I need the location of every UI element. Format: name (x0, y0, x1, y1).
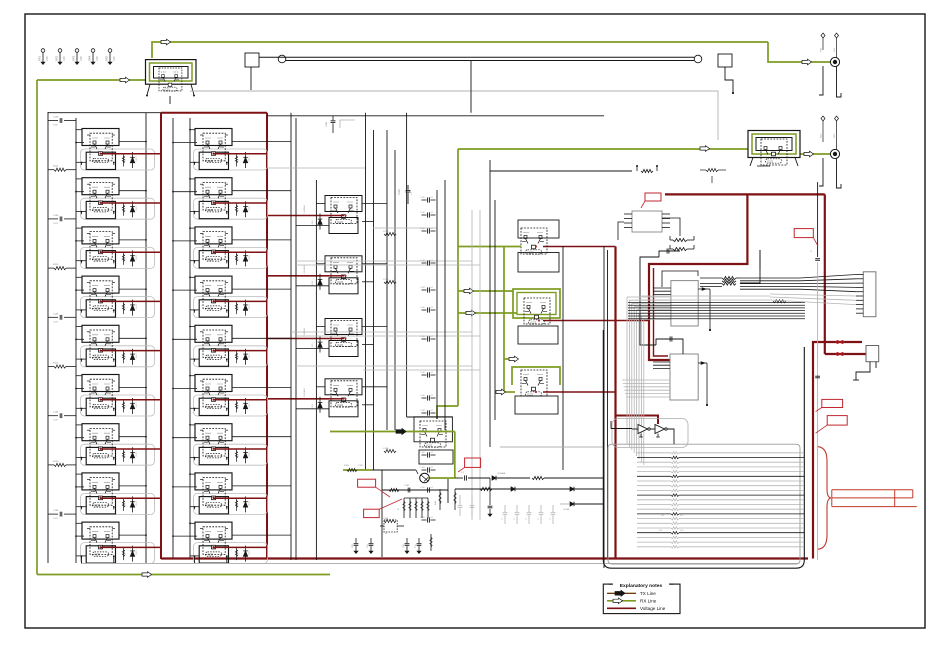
maroon cellC4 wire (543, 391, 616, 393)
black link U1-U2 left (640, 257, 659, 345)
optocoupler cell B7 (194, 424, 250, 465)
J1 tail wires (819, 66, 823, 95)
cell A5 junction dots (75, 338, 77, 340)
svg-text:NF1: NF1 (38, 56, 42, 61)
svg-text:Voltage Line: Voltage Line (640, 606, 666, 611)
RX arrow (120, 77, 130, 83)
cell A3 junction dots (75, 240, 77, 242)
cap chain x817 (817, 182, 819, 257)
gray crossing wire 1 (296, 260, 472, 262)
J2 tail wires (819, 158, 823, 186)
cell B4 left wires (190, 276, 195, 278)
green loop around E1 (330, 431, 455, 433)
gray crossing wire 3 (291, 331, 472, 333)
cell B9 voltage wire (213, 546, 267, 548)
annotation box NOTE6 (358, 479, 376, 487)
svg-text:C120: C120 (398, 189, 401, 195)
optocoupler cell A1 gray enclosure (81, 149, 155, 170)
IC U1 (671, 281, 698, 326)
optocoupler cell B1 gray enclosure (194, 149, 268, 170)
svg-text:L150: L150 (312, 343, 314, 349)
cell B2 left wires (190, 178, 195, 180)
cell C1 outer rects (325, 196, 362, 212)
svg-text:TX Line: TX Line (640, 591, 656, 596)
optocoupler cell B9 (194, 522, 250, 563)
input network row A1 (48, 120, 58, 122)
green stub D1 (458, 246, 521, 248)
gray cap row left (459, 495, 461, 505)
fan resistors (722, 276, 736, 279)
cell B5 junction dots (172, 338, 174, 340)
bundle resistor (773, 300, 786, 303)
cell A2 right wire (119, 190, 146, 192)
gray bundle lower (622, 379, 670, 381)
coupling capacitor (422, 214, 427, 216)
RX arrow D2b (466, 310, 476, 316)
cell D3 outer (515, 396, 558, 414)
maroon to DC block (825, 353, 866, 355)
optocoupler cell A4 gray enclosure (81, 297, 155, 318)
optocoupler cell B9 gray enclosure (194, 543, 268, 564)
cell C2 outer rects (325, 256, 362, 272)
U2 left pins (653, 361, 670, 363)
coupling capacitor (422, 338, 427, 340)
RX arrow D3 (509, 356, 519, 362)
cell A7 left wires (76, 424, 82, 426)
optocoupler cell A2 (81, 178, 137, 219)
svg-text:C148: C148 (53, 117, 59, 119)
cell C4 diode (319, 397, 321, 403)
cell C4 maroon entry (329, 398, 344, 400)
input network row A3 (48, 218, 58, 220)
upper gray link (340, 120, 355, 128)
maroon cellB4 long wire (543, 320, 649, 322)
line cell D2 (524, 298, 550, 324)
black vertical x382 (381, 470, 383, 557)
cell A4 junction dots (75, 289, 77, 291)
resistor R31 (480, 487, 492, 490)
cell C4 outer rects (325, 379, 362, 395)
cell A2 junction dots (75, 191, 77, 193)
cell A8 right wire (119, 485, 146, 487)
coupling capacitor (422, 412, 427, 414)
cell B6 junction dots (172, 388, 174, 390)
cell B8 right wire (232, 485, 291, 487)
cell C1 maroon entry (329, 215, 344, 217)
cell A7 voltage wire (100, 448, 161, 450)
green wire down to J1 (768, 42, 830, 62)
optocoupler cell A9 (81, 522, 137, 563)
optocoupler cell B7 gray enclosure (194, 444, 268, 465)
input network row A8 (48, 464, 54, 466)
line cell D1 (521, 228, 547, 254)
annotation box NOTE4 (827, 416, 847, 426)
svg-text:1SB: 1SB (46, 56, 49, 61)
bus line (436, 190, 438, 419)
cell B9 right wire (232, 534, 291, 536)
svg-text:150P: 150P (53, 321, 59, 323)
svg-text:NF5: NF5 (105, 56, 109, 61)
svg-text:C148: C148 (53, 412, 59, 414)
svg-text:L150: L150 (312, 280, 314, 286)
green box around cell D2 (513, 289, 560, 318)
maroon box top (161, 112, 267, 114)
optocoupler cell A7 gray enclosure (81, 444, 155, 465)
CN2 pin 3 (856, 282, 863, 284)
cell A6 junction dots (75, 388, 77, 390)
pin diamond group2-1 (821, 116, 825, 121)
small IC E2 dashed (384, 520, 397, 532)
optocoupler cell A3 gray enclosure (81, 247, 155, 268)
cell A3 right wire (119, 239, 146, 241)
DC-DC block (866, 346, 879, 362)
svg-text:C148: C148 (383, 448, 389, 450)
wire to transistor (372, 469, 416, 471)
maroon jog down (649, 194, 747, 360)
wire y490 (382, 489, 448, 491)
svg-text:1SB: 1SB (113, 56, 116, 61)
lower ladder wire (455, 488, 604, 490)
green long line to transformer T2 (458, 148, 748, 150)
gray vertical x817 (817, 262, 819, 560)
component cluster resistors (403, 498, 405, 518)
cell C4 left wires (316, 386, 325, 388)
cell B3 right wire (232, 239, 291, 241)
red polarity beads (836, 341, 839, 344)
cell A4 right wire (119, 288, 146, 290)
optocoupler cell A5 gray enclosure (81, 346, 155, 367)
green top loop from T1 (152, 42, 768, 58)
optocoupler cell B4 gray enclosure (194, 297, 268, 318)
left top bus (48, 112, 161, 114)
cell C2 red dot (344, 275, 346, 277)
cell B9 ground drops (194, 556, 196, 564)
inner rounded box (608, 444, 800, 564)
connector J1 (830, 57, 839, 66)
svg-text:L1B0A6B: L1B0A6B (303, 265, 306, 274)
svg-text:C180: C180 (326, 121, 328, 127)
cell A9 junction dots (75, 535, 77, 537)
optocoupler cell C3 (331, 321, 357, 347)
gray cap row mid (504, 505, 506, 512)
CN2 pin 2 (856, 278, 863, 280)
cell E1 lower rect (419, 450, 453, 464)
svg-text:150P: 150P (53, 518, 59, 520)
legend title dashes (609, 583, 613, 585)
optocoupler cell B2 (194, 178, 250, 219)
opamp feed wires (611, 428, 632, 430)
green out of T2 to J2 (800, 153, 830, 155)
cell C1 diode (319, 214, 321, 220)
link to IC area (490, 170, 632, 172)
U1 left pins (653, 287, 671, 289)
transformer T1 component (159, 68, 182, 91)
cell C3 right wires (362, 326, 387, 328)
optocoupler cell B5 gray enclosure (194, 346, 268, 367)
cell B2 right wire (232, 190, 291, 192)
transistor Q1 (420, 473, 430, 483)
line circle (278, 55, 286, 63)
bus line (315, 180, 317, 560)
bottom cap row (355, 538, 357, 543)
pin diamond group1-1 (821, 33, 825, 38)
cell B8 left wires (190, 473, 195, 475)
cell B8 junction dots (172, 486, 174, 488)
gray crossing wire 4 (296, 335, 480, 337)
svg-text:NF3: NF3 (72, 56, 76, 61)
diode D10 (492, 476, 496, 480)
gray bus (471, 210, 473, 520)
input network row A9 (48, 513, 58, 515)
optocoupler cell B1 (194, 129, 250, 170)
RX arrow D3b (496, 389, 506, 395)
green jog to modem cell (437, 406, 458, 419)
maroon to col3 row3 (267, 338, 329, 340)
U1 right pins (698, 288, 710, 290)
optocoupler cell A6 (81, 375, 137, 416)
maroon right vertical (824, 194, 826, 354)
transformer T2 nested shield (748, 131, 800, 158)
cell A8 left wires (76, 473, 82, 475)
line cell D1 outer (518, 220, 559, 238)
svg-text:L150: L150 (312, 403, 314, 409)
diode D12 (570, 487, 574, 491)
cell B7 right wire (232, 436, 291, 438)
legend box (603, 584, 680, 614)
svg-text:C148: C148 (53, 215, 59, 217)
annotation box NOTE2 (794, 229, 813, 238)
cell B1 right wire (232, 141, 291, 143)
legend RX line (607, 600, 636, 602)
maroon to col3 row1 (267, 215, 329, 217)
input pin P3 (75, 49, 79, 53)
coupling capacitor (422, 230, 427, 232)
cell A6 left wires (76, 375, 82, 377)
coupling capacitor (422, 199, 427, 201)
bus line (406, 113, 408, 417)
optocoupler cell B4 (194, 276, 250, 317)
green box cell D3 top (512, 367, 560, 385)
maroon mid-right path (665, 193, 825, 195)
cell A1 voltage wire (100, 153, 161, 155)
cell B9 left wires (190, 522, 195, 524)
cell A8 junction dots (75, 486, 77, 488)
optocoupler cell A8 (81, 473, 137, 514)
cell B5 voltage wire (213, 350, 267, 352)
cell A9 right wire (119, 534, 146, 536)
T1 ground stub (169, 96, 171, 104)
cell A3 voltage wire (100, 251, 161, 253)
gray crossing wire 8 (373, 227, 437, 229)
maroon to col3 row2 (267, 275, 329, 277)
bus line right (759, 250, 761, 270)
cross horizontal (407, 416, 452, 418)
CN2 pin 7 (856, 299, 863, 301)
cell A7 right wire (119, 436, 146, 438)
green stub D3 upper (504, 358, 517, 360)
RX arrow on T2 line (700, 146, 710, 152)
capacitor C120 (407, 185, 409, 190)
cell B6 right wire (232, 387, 291, 389)
maroon IC inner line (654, 268, 669, 356)
cluster top wire (404, 497, 428, 499)
pin diamond group2-2 (835, 116, 839, 121)
svg-text:L1B0A6B: L1B0A6B (303, 388, 306, 397)
cell B3 junction dots (172, 240, 174, 242)
red curly brace (818, 447, 831, 550)
resistor vertical R40 (430, 534, 432, 551)
cell B7 left wires (190, 424, 195, 426)
bus line (494, 200, 496, 420)
enclosure gray line bottom (83, 563, 798, 565)
DC block tail (856, 362, 870, 380)
green bottom horizontal wire (37, 574, 330, 576)
input pin P1 (41, 49, 45, 53)
svg-text:C148: C148 (383, 279, 389, 281)
cell A5 voltage wire (100, 350, 161, 352)
T1 feet (147, 84, 150, 95)
cap stack right (489, 478, 491, 505)
svg-text:1SB: 1SB (63, 56, 66, 61)
cross horizontal 2 (500, 446, 604, 448)
svg-text:R120: R120 (53, 264, 59, 266)
svg-text:L1B0A6B: L1B0A6B (303, 204, 306, 213)
CN2 pin 1 (856, 274, 863, 276)
drop wire to bus (470, 61, 472, 113)
svg-text:C148: C148 (383, 231, 389, 233)
gray crossing wire 5 (296, 365, 472, 367)
cell C3 left wires (316, 326, 325, 328)
double wire upper (259, 56, 694, 58)
optocoupler cell B3 gray enclosure (194, 247, 268, 268)
svg-text:SG2: SG2 (834, 133, 836, 138)
coupling capacitor (422, 519, 427, 521)
cap on output (455, 477, 463, 479)
bus line (607, 250, 609, 559)
cell A1 right wire (119, 141, 146, 143)
maroon bottom bus (161, 557, 808, 559)
coupling capacitor (422, 262, 427, 264)
cell C3 maroon entry (329, 338, 344, 340)
bus line (365, 113, 367, 470)
gray bundle upper (627, 296, 671, 298)
cell C3 red dot (344, 337, 346, 339)
optocoupler cell B2 gray enclosure (194, 198, 268, 219)
svg-text:L150A6B: L150A6B (497, 472, 506, 475)
cell B1 left wires (190, 129, 195, 131)
svg-text:150P: 150P (53, 223, 59, 225)
pin diamond group1-2 (835, 33, 839, 38)
cell B2 junction dots (172, 191, 174, 193)
cell B6 left wires (190, 375, 195, 377)
cell C1 right wires (362, 203, 387, 205)
T2 bottom components (757, 165, 770, 167)
cell A4 left wires (76, 276, 82, 278)
annotation box NOTE7 (364, 509, 380, 517)
gray pair long (640, 295, 770, 297)
coupling capacitor (422, 489, 427, 491)
input network row A6 (48, 366, 54, 368)
red table (832, 489, 913, 491)
green stub D2 lower (458, 312, 517, 314)
annotation box NOTE1 (645, 193, 661, 201)
svg-text:1SB: 1SB (80, 56, 83, 61)
CN2 pin 6 (856, 295, 863, 297)
optocoupler cell B5 (194, 325, 250, 366)
optocoupler cell A6 gray enclosure (81, 395, 155, 416)
cell B1 junction dots (172, 142, 174, 144)
optocoupler cell B8 gray enclosure (194, 493, 268, 514)
bus line (145, 113, 147, 563)
op-amp A2 (655, 425, 665, 434)
bus line (75, 118, 77, 563)
line cell D3 (521, 370, 547, 396)
legend TX line (607, 592, 636, 594)
svg-text:Explanatory notes: Explanatory notes (620, 583, 663, 589)
green to transistor (429, 477, 455, 479)
cell B6 voltage wire (213, 399, 267, 401)
optocoupler cell C1 (331, 198, 357, 224)
svg-text:R120: R120 (53, 166, 59, 168)
svg-text:NF4: NF4 (88, 56, 92, 61)
cell A2 voltage wire (100, 202, 161, 204)
zigzag on green (347, 468, 357, 471)
svg-text:C148: C148 (53, 510, 59, 512)
bus line (47, 112, 49, 563)
maroon box right (266, 113, 268, 559)
svg-text:R2A: R2A (434, 500, 437, 505)
svg-text:C1: C1 (538, 518, 540, 520)
optocoupler cell C2 (331, 258, 357, 284)
transformer T2 component (761, 139, 787, 165)
svg-text:NF2: NF2 (55, 56, 59, 61)
cell B9 junction dots (172, 535, 174, 537)
svg-text:150P: 150P (53, 125, 59, 127)
maroon upper block wire (813, 342, 862, 354)
outer rounded enclosure (88, 120, 804, 567)
bus line (295, 118, 297, 560)
gray bus (479, 210, 481, 520)
optocoupler cell A7 (81, 424, 137, 465)
bus line (189, 118, 191, 558)
svg-text:SG1: SG1 (834, 47, 836, 52)
transformer T1 nested shield (146, 60, 197, 85)
black rounded box bottom section (603, 330, 804, 568)
RX arrow top (161, 39, 171, 45)
cell A2 left wires (76, 178, 82, 180)
input network row A4 (48, 267, 54, 269)
cell C4 red dot (344, 398, 346, 400)
maroon box around column2 - left (160, 113, 162, 559)
cell A5 left wires (76, 326, 82, 328)
cell C3 diode (319, 337, 321, 343)
CN2 pin 10 (856, 312, 863, 314)
cell B5 right wire (232, 337, 291, 339)
CN2 pin 4 (856, 286, 863, 288)
cell C1 left wires (316, 203, 325, 205)
IC U3 (632, 211, 662, 232)
green stub D2 upper (458, 290, 513, 292)
cell B2 voltage wire (213, 202, 267, 204)
coupling capacitor (422, 469, 427, 471)
CN2 pin 8 (856, 304, 863, 306)
green loop vertical (454, 432, 456, 479)
input pin P2 (58, 49, 62, 53)
svg-text:C1: C1 (502, 518, 504, 520)
coupling capacitor (422, 397, 427, 399)
svg-text:1SB: 1SB (96, 56, 99, 61)
connector CN2 (863, 272, 876, 317)
